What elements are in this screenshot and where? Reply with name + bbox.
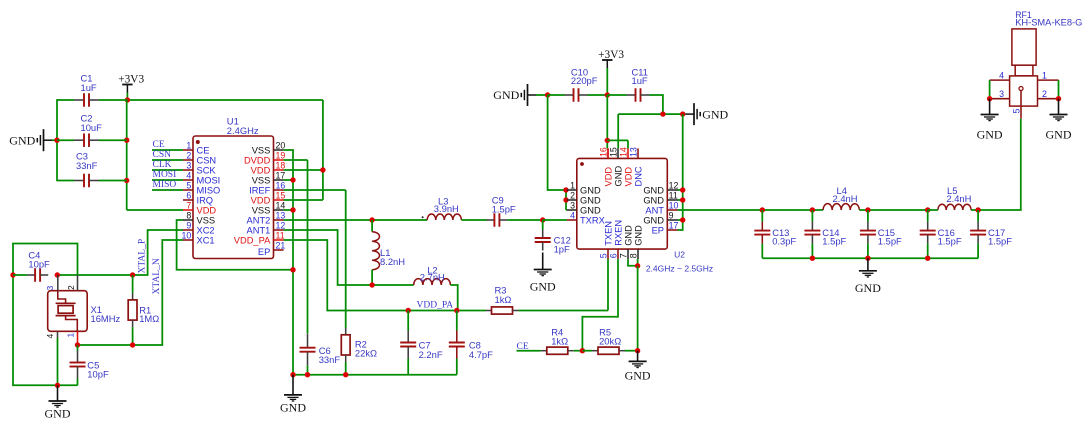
junction C16 bottom bbox=[925, 256, 930, 261]
svg-text:3.9nH: 3.9nH bbox=[434, 203, 459, 214]
wire +3V3 down to U2 pin16 VDD bbox=[606, 95, 609, 158]
svg-text:5: 5 bbox=[186, 181, 191, 191]
svg-text:11: 11 bbox=[276, 231, 285, 241]
svg-text:GND: GND bbox=[9, 133, 35, 147]
svg-text:XTAL_P: XTAL_P bbox=[137, 239, 147, 274]
svg-text:GND: GND bbox=[855, 281, 881, 295]
svg-text:EP: EP bbox=[652, 225, 664, 235]
net label XTAL_N (vertical) bbox=[152, 258, 162, 294]
svg-text:2.7nH: 2.7nH bbox=[420, 271, 445, 282]
IC U2 RF amplifier 2.4GHz~2.5GHz body bbox=[577, 158, 713, 273]
svg-text:MOSI: MOSI bbox=[153, 170, 177, 180]
resistor R3 1k bbox=[481, 285, 608, 315]
wire U2 pins7+8 GND join bbox=[628, 259, 638, 266]
svg-text:3: 3 bbox=[45, 286, 55, 291]
wire XTAL_N: U1 pin10 XC1 down to crystal pin1 row bbox=[78, 240, 184, 345]
svg-text:IRQ: IRQ bbox=[197, 195, 214, 205]
U2 pin 15 GND bbox=[608, 147, 623, 186]
wire IREF pin16 to R2 bbox=[284, 190, 346, 328]
wire filter ground bus bbox=[762, 257, 978, 259]
svg-text:2: 2 bbox=[186, 151, 191, 161]
inductor L3 3.9nH bbox=[427, 195, 461, 220]
junction R5 right / GND bbox=[635, 348, 640, 353]
wire VSS: pin20 down joining pins 17,14, pin8 row, to ground row bbox=[284, 150, 293, 375]
svg-text:4: 4 bbox=[45, 334, 55, 339]
svg-text:+3V3: +3V3 bbox=[118, 73, 144, 85]
svg-text:10pF: 10pF bbox=[28, 258, 50, 269]
U2 pin 9 GND bbox=[643, 211, 677, 226]
U1 pin 14 VSS bbox=[252, 201, 286, 216]
U1 pin 17 VSS bbox=[252, 171, 286, 186]
wire C9 to U2 pin4 TXRX bbox=[543, 219, 567, 221]
net label MOSI with wire to U1 pin 4 bbox=[152, 170, 183, 180]
svg-text:SCK: SCK bbox=[197, 165, 217, 175]
wire U2 right GND pins 12,11,9,17 vertical bbox=[678, 114, 683, 230]
svg-text:2.4GHz: 2.4GHz bbox=[227, 125, 259, 136]
U1 pin 5 MISO bbox=[183, 181, 220, 196]
junction C16 top / L5 left bbox=[925, 207, 930, 212]
U1 pin 9 XC2 bbox=[183, 221, 215, 236]
U2 pin 10 ANT bbox=[645, 201, 678, 216]
svg-text:2.4nH: 2.4nH bbox=[946, 193, 971, 204]
svg-text:5: 5 bbox=[598, 253, 608, 258]
svg-text:1uF: 1uF bbox=[632, 75, 648, 86]
junction C12 top / TXRX node bbox=[540, 217, 545, 222]
wire DVDD pin19 down to C6 bbox=[284, 160, 308, 334]
svg-text:7: 7 bbox=[618, 253, 628, 258]
wire L4 to C15 bbox=[859, 209, 927, 211]
junction left rail / GND bbox=[54, 138, 59, 143]
ground GND (below C12) bbox=[530, 253, 556, 294]
U1 pin 3 SCK bbox=[183, 161, 216, 176]
U1 pin 19 DVDD bbox=[244, 151, 285, 166]
svg-text:GND: GND bbox=[1046, 128, 1072, 142]
wire GND to C10 row bbox=[536, 94, 548, 96]
svg-text:7: 7 bbox=[186, 201, 191, 211]
U1 pin 20 VSS bbox=[252, 141, 286, 156]
junction C15 bottom / GND stem bbox=[865, 256, 870, 261]
svg-text:GND: GND bbox=[643, 195, 664, 205]
svg-text:1.5pF: 1.5pF bbox=[988, 236, 1012, 247]
U1 pin 1 CE bbox=[183, 141, 209, 156]
svg-text:VDD: VDD bbox=[197, 205, 217, 215]
inductor L1 8.2nH (shunt) bbox=[372, 220, 405, 285]
junction U2 pin1 bbox=[563, 187, 568, 192]
wire U2 GND-left drop to pins 1-3 bbox=[548, 95, 567, 210]
junction pin18 VDD bbox=[320, 167, 325, 172]
svg-text:16: 16 bbox=[598, 147, 608, 157]
ground GND (below R5) bbox=[625, 351, 651, 383]
junction U2 pin9 bbox=[680, 217, 685, 222]
net label CE (R4 input) bbox=[517, 342, 541, 352]
capacitor C9 bbox=[486, 194, 542, 226]
U1 pin 4 MOSI bbox=[183, 171, 220, 186]
junction C5/R1 row left end at crystal pin1 bbox=[75, 342, 80, 347]
wire L5 to RF1 pin5 riser bbox=[971, 119, 1021, 210]
svg-text:GND: GND bbox=[977, 128, 1003, 142]
svg-text:XTAL_N: XTAL_N bbox=[152, 258, 162, 294]
svg-text:0.3pF: 0.3pF bbox=[772, 236, 796, 247]
junction L1 top bbox=[369, 217, 374, 222]
capacitor C1 bbox=[57, 73, 127, 107]
power symbol +3V3 (U2) bbox=[598, 49, 624, 95]
svg-text:CLK: CLK bbox=[153, 160, 172, 170]
svg-text:4: 4 bbox=[570, 211, 575, 221]
wire ground row under U1 area bbox=[293, 374, 457, 376]
svg-text:12: 12 bbox=[669, 181, 679, 191]
resistor R1 1M bbox=[128, 275, 159, 345]
capacitor C12 (shunt at TXRX) bbox=[535, 220, 571, 254]
junction U2 pin2 bbox=[563, 197, 568, 202]
svg-text:EP: EP bbox=[258, 247, 270, 257]
U1 pin 15 VDD bbox=[251, 191, 286, 206]
svg-text:3: 3 bbox=[186, 161, 191, 171]
svg-text:8.2nH: 8.2nH bbox=[380, 256, 405, 267]
U2 pin 3 GND bbox=[567, 201, 601, 216]
svg-text:9: 9 bbox=[186, 221, 191, 231]
capacitor C11 bbox=[607, 66, 655, 101]
svg-text:2: 2 bbox=[66, 285, 76, 290]
svg-text:GND: GND bbox=[643, 215, 664, 225]
svg-text:1: 1 bbox=[66, 333, 76, 338]
svg-text:1kΩ: 1kΩ bbox=[551, 336, 568, 347]
svg-text:VSS: VSS bbox=[252, 175, 271, 185]
svg-text:1.5pF: 1.5pF bbox=[492, 203, 516, 214]
svg-text:GND: GND bbox=[580, 185, 601, 195]
junction C2 right bbox=[124, 138, 129, 143]
RF1 pin 2 bbox=[1038, 89, 1059, 99]
RF1 pin 4 bbox=[990, 70, 1010, 80]
wire ANT2 pin13 row to L3 bbox=[284, 219, 428, 221]
wire VDD pins 18,15 to +3V3 rail bbox=[284, 100, 323, 200]
junction C11 drop bbox=[660, 111, 665, 116]
svg-text:5: 5 bbox=[1011, 108, 1021, 113]
svg-text:VDD: VDD bbox=[251, 165, 271, 175]
svg-text:GND: GND bbox=[580, 195, 601, 205]
capacitor C8 bbox=[449, 311, 493, 375]
svg-text:XC2: XC2 bbox=[197, 225, 215, 235]
inductor L5 2.4nH bbox=[928, 185, 972, 210]
svg-text:2.2nF: 2.2nF bbox=[419, 349, 443, 360]
svg-text:CSN: CSN bbox=[197, 155, 217, 165]
svg-text:CSN: CSN bbox=[153, 150, 172, 160]
junction ground row/GND bbox=[290, 372, 295, 377]
svg-text:22kΩ: 22kΩ bbox=[355, 348, 377, 359]
svg-text:U2: U2 bbox=[674, 249, 685, 259]
capacitor C4 bbox=[13, 249, 50, 281]
svg-text:4: 4 bbox=[186, 171, 191, 181]
wire pins7/8 down to ground bbox=[637, 266, 639, 351]
svg-text:VDD: VDD bbox=[623, 167, 633, 187]
svg-text:GND: GND bbox=[45, 407, 71, 421]
svg-text:1.5pF: 1.5pF bbox=[822, 236, 846, 247]
junction C3 right bbox=[124, 178, 129, 183]
capacitor C13 bbox=[754, 210, 796, 258]
svg-text:MISO: MISO bbox=[197, 185, 221, 195]
svg-text:6: 6 bbox=[608, 253, 618, 258]
wire VDD_PA: pin11 down to bias row bbox=[284, 240, 481, 311]
capacitor C2 bbox=[57, 113, 127, 147]
svg-text:GND: GND bbox=[623, 225, 633, 246]
capacitor C16 bbox=[920, 210, 962, 258]
wire TXEN: R3 up to U2 pin5 bbox=[607, 259, 609, 310]
wire +3V3 rail y=100 to U1 VDD column bbox=[127, 99, 323, 101]
wire crystal pin4 to ground row bbox=[57, 338, 59, 385]
wire left rail x=57 (C1-C3) bbox=[56, 99, 58, 181]
svg-text:4: 4 bbox=[999, 70, 1004, 80]
capacitor C14 bbox=[804, 210, 846, 258]
crystal X1 16MHz bbox=[45, 275, 121, 345]
capacitor C5 bbox=[70, 345, 109, 385]
U1 pin 8 VSS bbox=[183, 211, 215, 226]
svg-text:MOSI: MOSI bbox=[197, 175, 221, 185]
svg-text:1.5pF: 1.5pF bbox=[938, 236, 962, 247]
svg-text:8: 8 bbox=[186, 211, 191, 221]
svg-text:17: 17 bbox=[669, 221, 679, 231]
svg-text:13: 13 bbox=[628, 147, 638, 157]
junction C8/L2/R3 node bbox=[454, 308, 459, 313]
svg-text:RXEN: RXEN bbox=[613, 220, 623, 246]
U2 pin 4 TXRX bbox=[567, 211, 605, 226]
U2 pin 16 VDD bbox=[598, 147, 613, 186]
ground GND (left of C2) bbox=[9, 129, 52, 151]
svg-text:GND: GND bbox=[633, 225, 643, 246]
RF1 pin 1 bbox=[1038, 70, 1059, 80]
wire GND to left rail bbox=[52, 139, 57, 141]
svg-text:15: 15 bbox=[608, 147, 618, 157]
svg-text:2.4GHz ~ 2.5GHz: 2.4GHz ~ 2.5GHz bbox=[646, 263, 713, 273]
U2 pin 2 GND bbox=[567, 191, 601, 206]
junction crystal pin3 / C4 bbox=[55, 272, 60, 277]
junction U2 GND-left drop bbox=[545, 92, 550, 97]
junction ground row / GND stem bbox=[55, 383, 60, 388]
U1 pin 6 IRQ bbox=[183, 191, 213, 206]
junction U2 pin12 bbox=[680, 187, 685, 192]
net label MISO with wire to U1 pin 5 bbox=[152, 180, 183, 190]
net label CSN with wire to U1 pin 2 bbox=[152, 150, 183, 160]
svg-text:+3V3: +3V3 bbox=[598, 49, 624, 61]
svg-text:1pF: 1pF bbox=[554, 243, 570, 254]
junction C13 top bbox=[760, 207, 765, 212]
junction U2 right GND drop bbox=[680, 111, 685, 116]
wire GND row y=114 (pin15 to GND symbol) bbox=[618, 114, 685, 148]
svg-text:KH-SMA-KE8-G: KH-SMA-KE8-G bbox=[1015, 18, 1082, 28]
ground GND (below C6) bbox=[280, 375, 306, 415]
junction R4/R5/RXEN bbox=[580, 348, 585, 353]
svg-text:14: 14 bbox=[618, 147, 628, 157]
wire U1 pin17 VSS stub join bbox=[284, 177, 296, 182]
svg-text:CE: CE bbox=[517, 342, 529, 352]
wire jog to pin14 VDD bbox=[607, 140, 628, 148]
svg-text:16MHz: 16MHz bbox=[91, 313, 121, 324]
svg-text:GND: GND bbox=[580, 205, 601, 215]
capacitor C3 bbox=[57, 151, 127, 188]
wire XTAL_P: U1 pin9 XC2 to crystal row bbox=[57, 230, 183, 275]
ground GND (below crystal) bbox=[45, 385, 71, 420]
svg-text:3: 3 bbox=[999, 89, 1004, 99]
resistor R5 20k bbox=[582, 326, 637, 354]
wire C11 right down to GND row y=114 bbox=[655, 95, 663, 114]
junction C4 left on ground loop bbox=[10, 272, 15, 277]
inductor L4 2.4nH bbox=[823, 185, 859, 210]
ground GND (right of C11) bbox=[686, 103, 729, 125]
U1 pin 16 IREF bbox=[249, 181, 285, 196]
junction +3V3/C1 bbox=[125, 97, 130, 102]
svg-text:TXEN: TXEN bbox=[603, 221, 613, 246]
svg-text:CE: CE bbox=[153, 140, 165, 150]
U1 pin 13 ANT2 bbox=[247, 211, 286, 226]
junction C6 bottom bbox=[305, 372, 310, 377]
svg-text:DNC: DNC bbox=[633, 166, 643, 186]
wire U1 pin8 VSS loop under body bbox=[177, 220, 296, 272]
svg-text:33nF: 33nF bbox=[319, 354, 341, 365]
svg-text:ANT1: ANT1 bbox=[247, 225, 271, 235]
svg-text:CE: CE bbox=[197, 145, 210, 155]
svg-text:2.4nH: 2.4nH bbox=[833, 193, 858, 204]
net label XTAL_P (vertical) bbox=[137, 239, 147, 274]
wire RXEN: U2 pin6 to R4/R5 junction bbox=[582, 259, 618, 351]
svg-text:20kΩ: 20kΩ bbox=[599, 336, 621, 347]
resistor R4 1k bbox=[540, 326, 582, 354]
ground GND (RF1 right) bbox=[1046, 99, 1072, 142]
capacitor C15 bbox=[860, 210, 902, 258]
junction C7 top bbox=[406, 308, 411, 313]
svg-text:GND: GND bbox=[643, 185, 664, 195]
svg-text:VSS: VSS bbox=[197, 215, 216, 225]
svg-text:10: 10 bbox=[669, 201, 679, 211]
svg-text:10uF: 10uF bbox=[81, 122, 103, 133]
junction R2 bottom bbox=[343, 372, 348, 377]
svg-text:GND: GND bbox=[625, 368, 651, 382]
junction R1 bottom bbox=[130, 342, 135, 347]
node dot artifact near L3 bbox=[422, 216, 424, 218]
connector RF1 KH-SMA-KE8-G bbox=[1010, 10, 1083, 106]
RF1 pin 3 bbox=[990, 89, 1010, 99]
svg-text:GND: GND bbox=[280, 400, 306, 414]
wire crystal case pin2 to ground loop (left) bbox=[13, 244, 78, 386]
U2 pin 12 GND bbox=[643, 181, 678, 196]
U2 pin 7 GND bbox=[618, 225, 633, 259]
U2 pin 11 GND bbox=[643, 191, 678, 206]
svg-text:XC1: XC1 bbox=[197, 235, 215, 245]
net label VDD_PA bbox=[417, 301, 454, 311]
junction R1 top bbox=[130, 272, 135, 277]
wire RF1 pin4 to pin3 / ground bbox=[987, 80, 992, 101]
U2 pin 14 VDD bbox=[618, 147, 633, 186]
junction pins7/8 bbox=[635, 263, 640, 268]
svg-text:VDD_PA: VDD_PA bbox=[417, 301, 454, 311]
capacitor C10 bbox=[548, 66, 608, 101]
svg-text:GND: GND bbox=[493, 88, 519, 102]
svg-text:TXRX: TXRX bbox=[580, 215, 605, 225]
junction C15 top / L4 right bbox=[865, 207, 870, 212]
U1 pin 11 VDD_PA bbox=[234, 231, 285, 246]
wire ANT1 pin12 to L2 row bbox=[284, 230, 414, 285]
junction L1 bottom / ANT1 node bbox=[369, 282, 374, 287]
svg-text:MISO: MISO bbox=[153, 180, 177, 190]
svg-text:1kΩ: 1kΩ bbox=[495, 294, 512, 305]
wire U1 pin14 VSS stub join bbox=[284, 207, 296, 212]
junction C17 top bbox=[975, 207, 980, 212]
wire L2 to VDD_PA node bbox=[450, 285, 457, 311]
svg-text:ANT2: ANT2 bbox=[247, 215, 271, 225]
ground GND (left of C10) bbox=[493, 84, 536, 106]
junction C14 bottom bbox=[810, 256, 815, 261]
svg-text:VDD: VDD bbox=[251, 195, 271, 205]
svg-text:10pF: 10pF bbox=[87, 368, 109, 379]
U1 pin 2 CSN bbox=[183, 151, 216, 166]
wire RF1 pin1 to pin2 / ground bbox=[1056, 80, 1061, 101]
U2 pin 13 DNC bbox=[628, 147, 643, 186]
net label CLK with wire to U1 pin 3 bbox=[152, 160, 183, 170]
wire right rail x=126.7 down to U1 pin7 VDD bbox=[127, 99, 183, 210]
capacitor C17 bbox=[970, 210, 1012, 258]
svg-text:VSS: VSS bbox=[252, 145, 271, 155]
svg-text:VSS: VSS bbox=[252, 205, 271, 215]
svg-text:DVDD: DVDD bbox=[244, 155, 271, 165]
svg-text:VDD: VDD bbox=[603, 167, 613, 187]
U2 pin 17 EP bbox=[652, 221, 679, 236]
power symbol +3V3 (left) bbox=[118, 73, 144, 99]
ground GND (RF1 left) bbox=[977, 99, 1003, 142]
svg-text:2: 2 bbox=[570, 191, 575, 201]
junction U2 pin11 bbox=[680, 197, 685, 202]
capacitor C7 bbox=[400, 311, 443, 375]
U2 pin 6 RXEN bbox=[608, 220, 623, 259]
U2 pin 5 TXEN bbox=[598, 221, 613, 259]
IC U1 2.4GHz transceiver body bbox=[193, 115, 274, 258]
svg-text:1uF: 1uF bbox=[81, 82, 97, 93]
U2 pin 8 GND bbox=[628, 225, 643, 259]
svg-text:2: 2 bbox=[1042, 89, 1047, 99]
svg-text:21: 21 bbox=[276, 241, 286, 251]
wire L3 to C9 bbox=[461, 219, 487, 221]
junction +3V3 / C10 / C11 bbox=[605, 92, 610, 97]
RF1 pin 5 (signal) bbox=[1011, 91, 1021, 119]
U1 pin 18 VDD bbox=[251, 161, 286, 176]
U1 pin 10 XC1 bbox=[182, 231, 215, 246]
ground GND (filter) bbox=[855, 258, 881, 295]
capacitor C6 bbox=[300, 334, 341, 375]
svg-text:1MΩ: 1MΩ bbox=[139, 313, 159, 324]
svg-text:6: 6 bbox=[186, 191, 191, 201]
svg-text:GND: GND bbox=[702, 107, 728, 121]
svg-text:3: 3 bbox=[570, 201, 575, 211]
svg-text:GND: GND bbox=[613, 166, 623, 187]
svg-text:11: 11 bbox=[669, 191, 678, 201]
junction C14 top / L4 left bbox=[810, 207, 815, 212]
inductor L2 2.7nH bbox=[414, 265, 451, 285]
svg-text:33nF: 33nF bbox=[76, 160, 98, 171]
svg-text:4.7pF: 4.7pF bbox=[469, 349, 493, 360]
wire ANT pin10 to output filter row bbox=[678, 209, 824, 211]
svg-text:220pF: 220pF bbox=[571, 75, 598, 86]
U1 pin 12 ANT1 bbox=[247, 221, 286, 236]
svg-text:8: 8 bbox=[628, 253, 638, 258]
U2 pin 1 GND bbox=[567, 181, 601, 196]
U1 pin 21 EP bbox=[258, 241, 285, 257]
svg-text:1: 1 bbox=[1042, 70, 1047, 80]
U1 pin 7 VDD bbox=[183, 201, 216, 216]
svg-text:IREF: IREF bbox=[249, 185, 270, 195]
svg-text:9: 9 bbox=[669, 211, 674, 221]
net label CE with wire to U1 pin 1 bbox=[152, 140, 183, 150]
svg-text:VDD_PA: VDD_PA bbox=[234, 235, 271, 245]
junction pin14 jog bbox=[605, 138, 610, 143]
svg-text:1: 1 bbox=[186, 141, 191, 151]
svg-text:GND: GND bbox=[530, 279, 556, 293]
resistor R2 22k bbox=[341, 328, 377, 375]
